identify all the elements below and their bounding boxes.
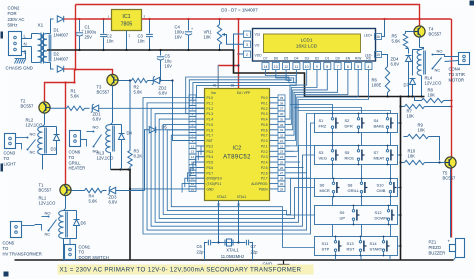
svg-text:LED+: LED+: [364, 34, 373, 38]
caption text: [60, 267, 302, 274]
wire GND step1: [234, 50, 425, 97]
svg-text:4: 4: [368, 65, 370, 69]
svg-text:10: 10: [305, 65, 309, 69]
junction red2: [64, 68, 76, 83]
svg-text:+: +: [448, 239, 451, 244]
svg-text:11: 11: [295, 65, 299, 69]
svg-text:BC557: BC557: [443, 176, 456, 181]
resistor R9: [404, 134, 440, 160]
svg-text:S2: S2: [345, 118, 351, 123]
svg-text:P1.7: P1.7: [207, 134, 214, 138]
VR1 wiper: [222, 33, 244, 44]
piezo buzzer PZ1: [448, 239, 465, 261]
svg-text:(TXD)P3.1: (TXD)P3.1: [207, 182, 222, 186]
svg-text:12V,1CO: 12V,1CO: [97, 156, 115, 161]
svg-text:P0.0: P0.0: [261, 96, 268, 100]
svg-text:MOTOR: MOTOR: [449, 77, 465, 82]
wire red D2 drop: [74, 70, 76, 83]
wire T5 collector: [450, 168, 452, 237]
label RL3 NC: [93, 149, 99, 154]
wires row5 to bus: [336, 256, 391, 261]
svg-text:1N4007: 1N4007: [54, 33, 69, 38]
resistor R4: [72, 188, 103, 192]
resistor R5: [403, 34, 407, 49]
label R8: [428, 88, 436, 98]
svg-text:37: 37: [280, 107, 284, 111]
svg-text:P3.6: P3.6: [207, 166, 214, 170]
svg-text:P3.7: P3.7: [207, 171, 214, 175]
wires scan band: [143, 98, 315, 248]
diode D3 flyback: [43, 127, 60, 155]
svg-text:BC557: BC557: [97, 90, 110, 95]
transistor T5: [445, 157, 456, 168]
svg-text:START: START: [370, 247, 383, 252]
svg-text:IC1: IC1: [122, 14, 130, 20]
resistor R8: [415, 97, 453, 103]
wire sec top: [51, 19, 54, 34]
LCD right pin labels: [364, 34, 373, 58]
svg-text:P0.6: P0.6: [261, 128, 268, 132]
relay RL3 contacts: [81, 131, 102, 148]
svg-text:X1 = 230V AC PRIMARY TO 12V-0-: X1 = 230V AC PRIMARY TO 12V-0- 12V,500mA…: [60, 267, 302, 274]
label RL1 NO: [45, 211, 51, 216]
label L: [24, 34, 27, 55]
svg-text:30: 30: [280, 182, 284, 186]
svg-text:TO: TO: [69, 155, 75, 160]
wire top red feed: [76, 5, 420, 26]
svg-text:32: 32: [280, 134, 284, 138]
svg-text:GND: GND: [207, 187, 215, 191]
capacitor C4: [185, 18, 192, 51]
svg-text:P2.3: P2.3: [261, 155, 268, 159]
svg-text:MICR: MICR: [320, 188, 330, 193]
edge mark left top: [1, 32, 4, 39]
relay RL2 contacts: [15, 137, 36, 151]
svg-text:10K: 10K: [407, 113, 415, 118]
label CON5: [3, 241, 42, 257]
label R4: [89, 194, 98, 204]
svg-text:14: 14: [191, 155, 195, 159]
capacitor C1: [76, 18, 83, 51]
ground symbol: [278, 260, 290, 271]
LCD left pin labels: [255, 33, 263, 58]
svg-text:P3.5: P3.5: [207, 161, 214, 165]
svg-text:S14: S14: [370, 241, 378, 246]
svg-text:D4: D4: [294, 56, 298, 60]
svg-text:22p: 22p: [251, 249, 259, 254]
svg-text:NC: NC: [45, 232, 51, 237]
label RL4: [425, 76, 443, 86]
label R1: [71, 89, 80, 99]
svg-text:IC2: IC2: [233, 146, 241, 152]
label C5: [165, 54, 173, 69]
wires matrix columns: [333, 133, 391, 237]
label T2: [21, 99, 34, 109]
svg-text:38: 38: [280, 101, 284, 105]
resistor R2: [118, 78, 148, 82]
svg-text:X1: X1: [38, 23, 44, 28]
svg-text:P2.1: P2.1: [261, 144, 268, 148]
svg-text:HV TRANSFORMER: HV TRANSFORMER: [3, 251, 42, 256]
svg-text:6.8V: 6.8V: [391, 62, 400, 67]
svg-text:D5: D5: [284, 56, 288, 60]
label IC2: [223, 146, 251, 161]
svg-text:S5: S5: [345, 150, 351, 155]
capacitor C7: [239, 240, 253, 260]
svg-text:S13: S13: [347, 241, 355, 246]
wire sec bottom: [51, 63, 54, 70]
wire GND bus top: [51, 49, 234, 51]
svg-text:12: 12: [284, 65, 288, 69]
label ZD3: [109, 195, 118, 205]
wires matrix to gnd: [398, 122, 402, 247]
label T3: [97, 85, 110, 95]
svg-text:NC: NC: [93, 149, 99, 154]
svg-text:13: 13: [191, 150, 195, 154]
connector CON3: [5, 134, 16, 149]
svg-text:5: 5: [357, 65, 359, 69]
svg-text:22p: 22p: [197, 249, 205, 254]
svg-text:LIGHT: LIGHT: [4, 161, 17, 166]
wire RL2 bottom: [42, 155, 44, 170]
svg-text:36: 36: [280, 112, 284, 116]
wire red to T2: [45, 83, 75, 103]
label CON6: [69, 150, 86, 171]
wire D5 link: [145, 130, 150, 191]
svg-text:35: 35: [280, 117, 284, 121]
label C2: [107, 34, 115, 44]
svg-text:12V,1CO: 12V,1CO: [425, 81, 443, 86]
label RL2 NC: [30, 150, 36, 155]
svg-text:P2.2: P2.2: [261, 150, 268, 154]
relay RL4 coil: [417, 48, 425, 76]
svg-text:CON6: CON6: [69, 150, 81, 155]
svg-text:7805: 7805: [121, 22, 133, 28]
label D6: [81, 221, 87, 226]
label D3: [51, 147, 57, 152]
svg-text:+: +: [82, 29, 84, 33]
label D5: [162, 125, 168, 130]
svg-text:P1.2: P1.2: [207, 107, 214, 111]
svg-text:NO: NO: [45, 211, 51, 216]
svg-text:PSEN: PSEN: [259, 187, 268, 191]
svg-text:(RXD)P3.0: (RXD)P3.0: [207, 177, 223, 181]
svg-text:C6: C6: [197, 244, 203, 249]
svg-text:BC557: BC557: [429, 32, 442, 37]
LCD bottom pin stubs: [262, 63, 372, 70]
svg-text:5.6K: 5.6K: [134, 90, 143, 95]
label R2: [134, 85, 143, 95]
relay RL1 contacts: [35, 216, 57, 232]
svg-text:P1.3: P1.3: [207, 112, 214, 116]
svg-text:D2: D2: [315, 56, 319, 60]
svg-text:12: 12: [191, 144, 195, 148]
svg-text:D3: D3: [305, 56, 309, 60]
wire red to T1: [65, 83, 67, 185]
svg-text:6.8V: 6.8V: [93, 117, 102, 122]
svg-text:R/W: R/W: [355, 56, 362, 60]
svg-text:P1.5: P1.5: [207, 123, 214, 127]
svg-text:N: N: [24, 42, 27, 47]
svg-text:Vss: Vss: [255, 33, 261, 37]
svg-text:29: 29: [280, 187, 284, 191]
transformer X1 primary: [32, 34, 43, 63]
IC2 right pins: [251, 95, 285, 192]
svg-text:D6: D6: [274, 56, 278, 60]
svg-text:GRILL: GRILL: [348, 188, 360, 193]
label RL4 NC: [435, 68, 441, 73]
relay RL1 coil: [59, 209, 68, 239]
wire LCD VDD: [239, 53, 244, 55]
label IC2 Vcc: [211, 91, 250, 95]
svg-text:BC557: BC557: [21, 104, 34, 109]
wires P2 stubs: [285, 141, 310, 179]
svg-text:25V: 25V: [85, 35, 93, 40]
svg-text:CHASIS GND: CHASIS GND: [6, 66, 33, 71]
svg-text:S9: S9: [340, 210, 346, 215]
svg-text:EN: EN: [346, 56, 351, 60]
svg-text:3: 3: [246, 43, 248, 47]
IC2 left pins: [189, 95, 222, 192]
junction red1: [74, 18, 76, 20]
svg-text:1N4007: 1N4007: [54, 57, 69, 62]
wire T1 collector: [65, 196, 67, 209]
svg-text:TO STIR: TO STIR: [449, 72, 465, 77]
svg-text:2: 2: [246, 53, 248, 57]
svg-text:10K: 10K: [408, 153, 416, 158]
wire red left vertical: [75, 5, 77, 70]
capacitor C3: [146, 18, 153, 51]
svg-text:+: +: [191, 27, 193, 31]
diode D6 flyback: [64, 211, 80, 239]
regulator IC1 7805: [112, 10, 142, 31]
wire XTAL1: [238, 201, 240, 243]
svg-text:31: 31: [231, 84, 235, 88]
svg-text:NO: NO: [93, 125, 99, 130]
label CON1: [79, 245, 109, 260]
wires column feeds: [291, 105, 391, 114]
wire CON2 N: [22, 46, 32, 48]
label CON2: [8, 6, 25, 28]
label LCD1: [296, 38, 318, 49]
label R9: [418, 123, 426, 133]
svg-text:5.6K: 5.6K: [392, 39, 401, 44]
svg-text:P1.4: P1.4: [207, 118, 214, 122]
svg-text:6.8V: 6.8V: [159, 91, 168, 96]
wire CON5a: [22, 225, 35, 227]
svg-text:23: 23: [280, 150, 284, 154]
label XTAL1: [221, 248, 244, 260]
svg-text:GRILL: GRILL: [69, 160, 82, 165]
svg-text:5.6K: 5.6K: [71, 94, 80, 99]
svg-text:D7: D7: [263, 56, 267, 60]
svg-text:16V: 16V: [175, 35, 183, 40]
capacitor C6: [205, 240, 219, 260]
resistor R6: [385, 67, 389, 98]
svg-text:Vcc: Vcc: [211, 91, 217, 95]
svg-text:PIEZO: PIEZO: [429, 245, 442, 250]
svg-text:C7: C7: [251, 244, 257, 249]
wire center tap: [47, 49, 51, 51]
svg-text:P0.3: P0.3: [261, 112, 268, 116]
svg-text:BUZZER: BUZZER: [429, 250, 446, 255]
svg-text:MEAT: MEAT: [374, 156, 385, 161]
label D1: [54, 28, 69, 38]
svg-text:26: 26: [280, 166, 284, 170]
svg-text:P1.1: P1.1: [207, 101, 214, 105]
label R3: [134, 149, 143, 159]
label ZD1: [93, 112, 102, 122]
svg-text:6: 6: [347, 65, 349, 69]
transistor T2: [39, 102, 50, 113]
svg-text:VDD: VDD: [255, 54, 263, 58]
svg-text:AT89C52: AT89C52: [223, 155, 251, 161]
label C1: [82, 25, 97, 40]
zener ZD2: [148, 76, 173, 84]
svg-text:S3: S3: [319, 150, 325, 155]
label R5: [392, 34, 401, 44]
potmeter VR1: [217, 18, 221, 51]
svg-text:UP: UP: [340, 216, 346, 221]
transformer X1 core: [41, 33, 44, 64]
edge mark left mid: [1, 164, 4, 172]
svg-text:XTAL2: XTAL2: [217, 195, 227, 199]
svg-text:DOOR SWITCH: DOOR SWITCH: [79, 255, 109, 260]
label CON3: [4, 151, 17, 167]
svg-text:PZ1: PZ1: [429, 240, 437, 245]
label D2: [54, 52, 69, 62]
svg-text:CON3: CON3: [4, 151, 16, 156]
wire T3 collector: [112, 86, 114, 123]
label C6: [197, 244, 205, 254]
diode D7 flyback: [410, 50, 422, 98]
svg-text:S7: S7: [374, 150, 380, 155]
svg-text:TO: TO: [3, 246, 9, 251]
wire RL3 bottom: [110, 153, 112, 170]
svg-text:28: 28: [280, 177, 284, 181]
svg-text:BAKE: BAKE: [374, 124, 385, 129]
svg-text:DFR: DFR: [345, 124, 353, 129]
connector CON6: [70, 131, 81, 147]
svg-text:P0.4: P0.4: [261, 118, 268, 122]
svg-text:STP: STP: [322, 247, 330, 252]
IC1 pin ticks: [108, 15, 146, 38]
wire CON2 E: [22, 52, 26, 59]
LCD right pin stubs: [375, 34, 382, 58]
svg-text:39: 39: [280, 96, 284, 100]
zener ZD3: [103, 186, 145, 194]
relay RL2 coil: [38, 125, 47, 155]
relay RL4 contacts: [432, 54, 459, 70]
svg-text:VO: VO: [255, 44, 260, 48]
svg-text:CON2: CON2: [8, 6, 21, 11]
svg-text:CON5: CON5: [3, 241, 15, 246]
LCD outer box: [253, 29, 376, 62]
caption strip: [58, 265, 314, 275]
svg-text:HEATER: HEATER: [69, 166, 86, 171]
svg-text:100E: 100E: [372, 83, 382, 88]
svg-text:P2.7: P2.7: [261, 177, 268, 181]
capacitor C2: [100, 18, 107, 51]
label T1: [39, 183, 52, 193]
svg-text:CON4: CON4: [449, 67, 461, 72]
svg-text:P3.2: P3.2: [207, 144, 214, 148]
label CHASIS GND: [6, 66, 33, 71]
diode D5: [149, 127, 204, 133]
label ZD4: [391, 57, 400, 67]
label CON4: [449, 67, 465, 83]
label XTAL pins: [217, 195, 247, 207]
svg-text:RS: RS: [366, 56, 371, 60]
transformer X1 secondary: [42, 34, 51, 63]
label C7: [251, 244, 259, 254]
label T5: [443, 171, 456, 181]
svg-text:TO: TO: [4, 156, 10, 161]
label C3: [138, 34, 146, 44]
svg-text:12V,1CO: 12V,1CO: [39, 201, 57, 206]
resistor R3: [128, 79, 132, 169]
svg-text:D3: D3: [51, 147, 57, 152]
svg-text:RST: RST: [347, 247, 356, 252]
edge mark bottom left: [4, 272, 9, 277]
wire CON2 L: [22, 38, 32, 40]
svg-text:10K: 10K: [204, 35, 212, 40]
wire LED-: [382, 55, 388, 67]
LCD screen: [264, 34, 361, 53]
wire LCD Vss: [234, 34, 244, 50]
svg-text:S6: S6: [320, 183, 326, 188]
transistor T3: [107, 74, 118, 85]
LCD bottom pin labels: [263, 56, 371, 60]
resistor R7: [399, 104, 452, 108]
wire IC1 gnd: [125, 31, 127, 52]
wire GND right drop: [400, 97, 402, 261]
wire RL4 bottom: [420, 76, 422, 98]
transformer X1 label: [38, 23, 44, 28]
svg-text:S8: S8: [348, 183, 354, 188]
svg-text:50Hz: 50Hz: [8, 23, 18, 28]
wire red to T3: [75, 70, 113, 75]
crystal XTAL1: [217, 239, 239, 246]
wire LED+: [382, 18, 386, 37]
svg-text:25: 25: [280, 160, 284, 164]
resistor R10: [399, 160, 445, 164]
LCD left pin stubs: [244, 31, 251, 58]
wire T2 collector: [44, 113, 46, 124]
wire +12V top rail: [76, 18, 451, 20]
switch matrix S1-S14: [315, 113, 398, 257]
svg-text:22: 22: [280, 144, 284, 148]
svg-text:14: 14: [264, 65, 268, 69]
connector CON1: [65, 245, 76, 260]
svg-text:S1: S1: [319, 118, 325, 123]
label C4: [175, 25, 194, 40]
zener ZD1: [85, 104, 205, 112]
label R6: [372, 78, 382, 88]
wire red Vcc branch: [218, 65, 238, 89]
svg-text:D4: D4: [127, 131, 133, 136]
label RL2 NO: [30, 132, 36, 137]
svg-text:P2.0: P2.0: [261, 139, 268, 143]
wire T4 base: [406, 32, 414, 34]
label VR1: [204, 30, 213, 40]
svg-text:NO: NO: [437, 49, 443, 54]
svg-text:XTAL1: XTAL1: [226, 248, 239, 253]
svg-text:S11: S11: [322, 241, 330, 246]
svg-text:D0: D0: [335, 56, 339, 60]
svg-text:RST: RST: [207, 139, 213, 143]
diode D1: [57, 16, 75, 22]
